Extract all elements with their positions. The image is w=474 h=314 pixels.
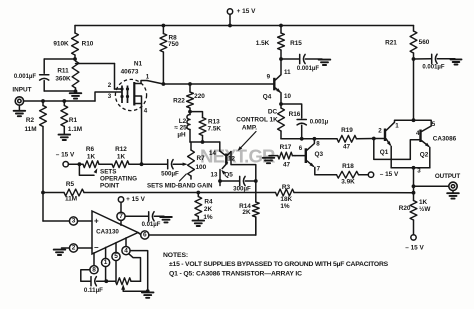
svg-text:47: 47 (343, 144, 351, 151)
svg-text:CA3130: CA3130 (96, 229, 119, 236)
svg-text:3: 3 (72, 218, 76, 225)
svg-text:3.9K: 3.9K (341, 178, 355, 185)
svg-text:2K: 2K (242, 209, 251, 216)
svg-text:R22: R22 (173, 98, 185, 105)
svg-text:R21: R21 (385, 39, 397, 46)
svg-text:2: 2 (72, 245, 76, 252)
svg-text:560: 560 (419, 39, 430, 46)
svg-text:3: 3 (417, 168, 421, 175)
svg-text:1: 1 (395, 123, 399, 130)
svg-text:R1: R1 (69, 117, 78, 124)
svg-text:R12: R12 (115, 146, 127, 153)
svg-text:0.11µF: 0.11µF (84, 287, 103, 294)
svg-text:47: 47 (283, 161, 291, 168)
svg-text:OUTPUT: OUTPUT (435, 173, 461, 180)
svg-text:500µF: 500µF (161, 170, 179, 177)
svg-text:R4: R4 (204, 199, 213, 206)
svg-text:R16: R16 (289, 111, 301, 118)
svg-text:5: 5 (114, 253, 118, 260)
svg-text:910K: 910K (53, 41, 69, 48)
svg-text:360K: 360K (55, 75, 71, 82)
svg-text:– 15 V: – 15 V (405, 245, 424, 252)
svg-text:10: 10 (284, 93, 291, 100)
svg-text:1%: 1% (203, 214, 213, 221)
svg-text:≈ 25: ≈ 25 (174, 125, 187, 132)
svg-text:+: + (94, 216, 99, 225)
svg-text:0.01µF: 0.01µF (142, 222, 161, 228)
svg-text:Q3: Q3 (315, 151, 324, 158)
svg-text:6: 6 (299, 145, 303, 152)
svg-text:Q5: Q5 (224, 172, 233, 179)
svg-text:AMP.: AMP. (242, 125, 257, 132)
svg-text:1%: 1% (280, 203, 290, 210)
svg-text:R3: R3 (282, 184, 291, 191)
svg-text:1K: 1K (117, 154, 126, 161)
svg-text:8: 8 (92, 266, 96, 273)
svg-text:11M: 11M (24, 126, 36, 133)
svg-text:1.1M: 1.1M (68, 126, 82, 133)
svg-text:R7: R7 (197, 155, 206, 162)
svg-text:SETS MID-BAND GAIN: SETS MID-BAND GAIN (147, 182, 213, 189)
svg-text:CONTROL 1K: CONTROL 1K (236, 116, 278, 123)
svg-text:11M: 11M (65, 195, 77, 202)
svg-text:7: 7 (119, 213, 123, 220)
svg-text:3: 3 (108, 93, 112, 100)
svg-text:R18: R18 (342, 163, 354, 170)
svg-text:13: 13 (211, 172, 218, 179)
svg-text:DC: DC (268, 108, 278, 115)
svg-text:9: 9 (267, 74, 271, 81)
svg-text:2: 2 (108, 82, 112, 89)
svg-text:CA3086: CA3086 (433, 136, 457, 143)
svg-text:R17: R17 (280, 144, 292, 151)
svg-text:INPUT: INPUT (12, 87, 31, 94)
svg-text:2K: 2K (204, 206, 213, 213)
svg-text:40673: 40673 (121, 69, 139, 76)
svg-text:–: – (94, 243, 99, 252)
svg-text:OPERATING: OPERATING (100, 176, 137, 183)
svg-text:N1: N1 (134, 61, 143, 68)
svg-text:4: 4 (144, 108, 148, 115)
svg-text:7: 7 (317, 165, 321, 172)
svg-text:1: 1 (146, 74, 150, 81)
svg-text:Q1 - Q5: CA3086 TRANSISTOR—ARR: Q1 - Q5: CA3086 TRANSISTOR—ARRAY IC (169, 270, 302, 277)
svg-text:– 15 V: – 15 V (380, 171, 399, 178)
svg-text:12: 12 (228, 155, 235, 162)
svg-text:R10: R10 (82, 41, 94, 48)
svg-text:+ 15 V: + 15 V (126, 196, 145, 203)
svg-text:1K: 1K (419, 199, 428, 206)
svg-text:750: 750 (168, 41, 179, 48)
svg-text:1K: 1K (87, 154, 96, 161)
svg-text:220: 220 (194, 93, 205, 100)
svg-text:300µF: 300µF (233, 185, 251, 192)
svg-text:Q4: Q4 (263, 94, 272, 101)
svg-text:R2: R2 (26, 117, 35, 124)
svg-text:0.001µ: 0.001µ (310, 119, 329, 125)
svg-text:5: 5 (432, 121, 436, 128)
svg-text:4: 4 (124, 247, 128, 254)
svg-text:14: 14 (209, 150, 216, 157)
svg-text:R11: R11 (57, 68, 69, 75)
svg-text:R19: R19 (341, 127, 353, 134)
svg-text:4: 4 (416, 130, 420, 137)
svg-text:2: 2 (378, 128, 382, 135)
svg-text:µH: µH (177, 132, 186, 139)
svg-text:R5: R5 (66, 181, 75, 188)
svg-text:NOTES:: NOTES: (163, 252, 188, 259)
svg-text:18K: 18K (280, 196, 292, 203)
svg-text:8: 8 (316, 141, 320, 148)
svg-text:7.5K: 7.5K (208, 126, 222, 133)
svg-text:+ 15 V: + 15 V (237, 8, 256, 15)
svg-text:6: 6 (143, 232, 147, 239)
svg-text:11: 11 (284, 69, 291, 76)
svg-text:R15: R15 (290, 40, 302, 47)
svg-text:1: 1 (104, 259, 108, 266)
svg-text:100: 100 (196, 164, 207, 171)
svg-text:SETS: SETS (100, 168, 116, 175)
svg-text:0.001µF: 0.001µF (297, 66, 319, 72)
svg-text:POINT: POINT (100, 183, 119, 190)
svg-text:0.001µF: 0.001µF (14, 74, 36, 80)
svg-text:0.001µF: 0.001µF (422, 64, 444, 70)
svg-text:±15 - VOLT SUPPLIES BYPASSED T: ±15 - VOLT SUPPLIES BYPASSED TO GROUND W… (169, 261, 389, 268)
svg-text:1.5K: 1.5K (256, 40, 270, 47)
svg-text:– 15 V: – 15 V (56, 152, 75, 159)
svg-text:R20: R20 (399, 205, 411, 212)
svg-text:½W: ½W (419, 205, 431, 213)
svg-text:R13: R13 (208, 119, 220, 126)
svg-text:R6: R6 (86, 146, 95, 153)
svg-text:Q1: Q1 (380, 149, 389, 156)
svg-text:Q2: Q2 (420, 152, 429, 159)
